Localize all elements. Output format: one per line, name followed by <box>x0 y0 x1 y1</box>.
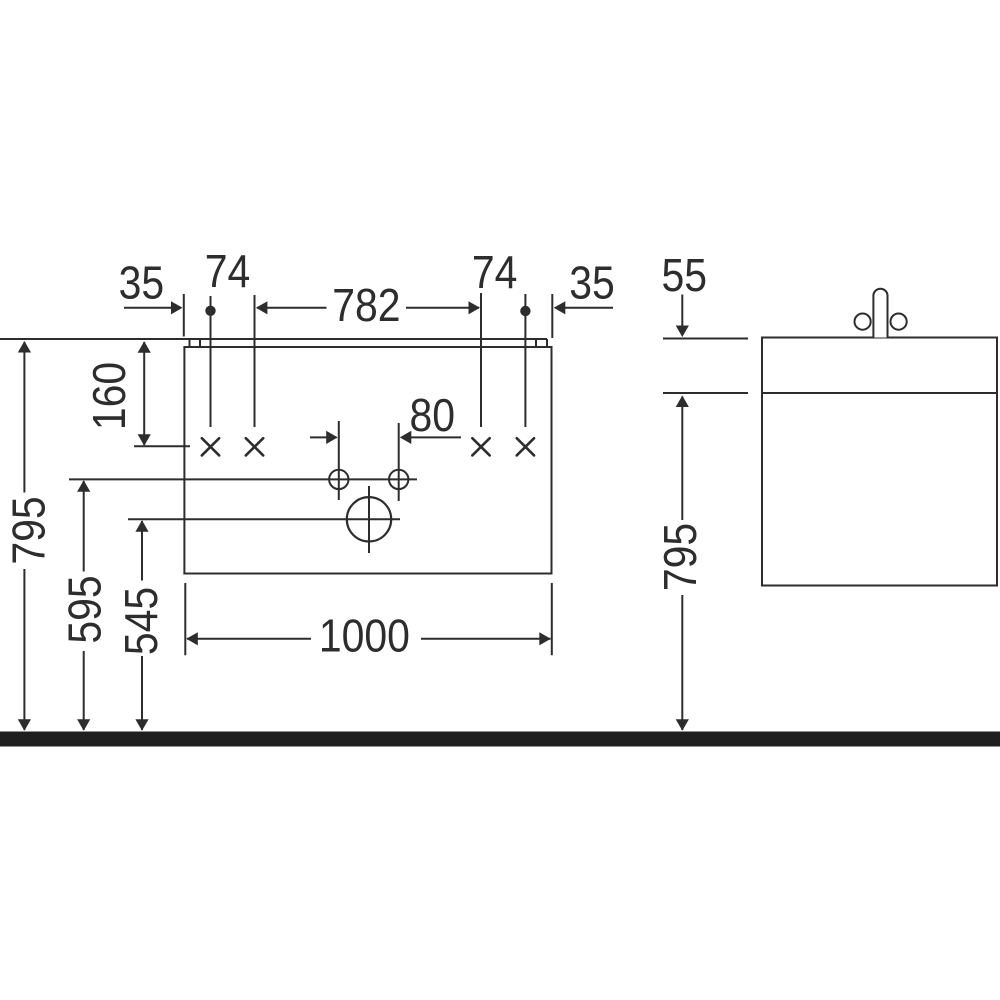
dimension 74 left <box>205 247 251 298</box>
svg-text:35: 35 <box>569 258 615 309</box>
svg-text:545: 545 <box>117 587 168 655</box>
supply hole circle right <box>389 423 408 501</box>
svg-text:595: 595 <box>60 575 111 643</box>
drain line <box>128 518 400 520</box>
side view cabinet body <box>762 338 997 586</box>
right mounting tab <box>535 339 537 347</box>
hole line D <box>524 294 526 427</box>
hole line C <box>480 293 482 427</box>
dimension point dot right <box>520 306 530 316</box>
svg-text:160: 160 <box>85 362 136 430</box>
svg-text:1000: 1000 <box>319 611 410 662</box>
dimension 35 left <box>119 258 183 314</box>
dimension 55 <box>661 251 707 337</box>
hole mark X2 <box>246 438 263 455</box>
dimension 545 <box>117 520 168 731</box>
hole mark X4 <box>517 438 534 455</box>
faucet supply line <box>69 478 417 480</box>
faucet handle left <box>855 314 871 330</box>
svg-text:74: 74 <box>205 247 251 298</box>
svg-text:795: 795 <box>656 523 707 591</box>
floor bar <box>0 732 1000 747</box>
dimension 795 right <box>656 396 707 731</box>
hole mark X3 <box>472 438 489 455</box>
cabinet right edge <box>551 347 553 575</box>
dimension 80 <box>310 391 461 444</box>
svg-text:80: 80 <box>410 391 456 442</box>
dimension point dot left <box>205 306 215 316</box>
dimension 795 left <box>4 341 55 731</box>
hole mark X1 <box>202 438 219 455</box>
faucet spout <box>873 289 887 338</box>
dimension 160 <box>85 341 190 446</box>
dimension 35 right <box>554 258 615 314</box>
svg-text:795: 795 <box>4 496 55 564</box>
drain hole circle <box>347 486 391 553</box>
side top tick line <box>663 338 748 340</box>
wall line <box>0 338 547 340</box>
svg-text:35: 35 <box>119 258 165 309</box>
dimension 595 <box>60 480 111 731</box>
left mounting tab <box>189 339 191 347</box>
cabinet top edge <box>183 346 552 348</box>
hole line A <box>210 296 212 427</box>
left edge extension line <box>183 294 185 337</box>
faucet handle right <box>891 314 907 330</box>
side view front panel line <box>762 392 997 394</box>
cabinet left edge <box>183 347 185 575</box>
side front tick line <box>663 392 748 394</box>
svg-text:74: 74 <box>472 248 518 299</box>
hole line B <box>254 295 256 427</box>
cabinet bottom edge <box>183 573 552 575</box>
svg-text:55: 55 <box>661 251 707 302</box>
svg-text:782: 782 <box>332 281 400 332</box>
dimension 782 <box>256 281 480 332</box>
supply hole circle left <box>329 421 348 500</box>
dimension 74 right <box>472 248 518 299</box>
right edge extension line <box>551 294 553 338</box>
dimension 1000 <box>185 583 552 662</box>
